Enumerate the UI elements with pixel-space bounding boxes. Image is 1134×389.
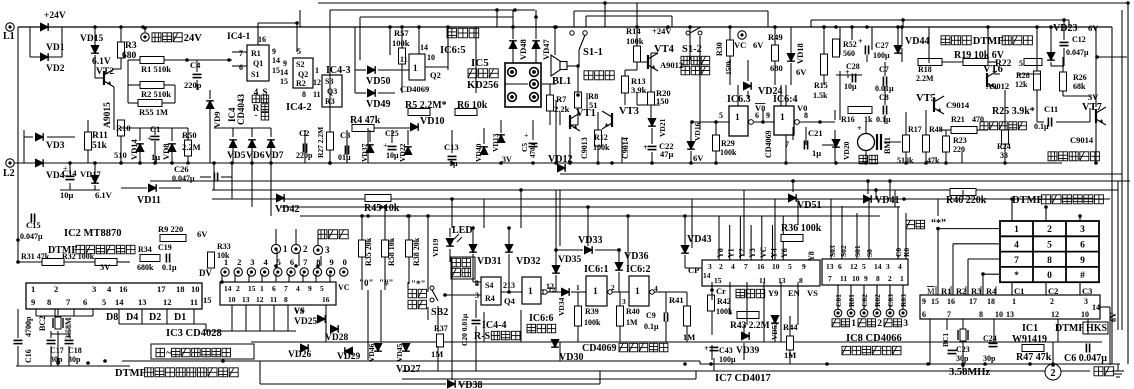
svg-text:9: 9 <box>766 111 770 120</box>
svg-text:R36 100k: R36 100k <box>781 223 822 234</box>
svg-text:IC2 MT8870: IC2 MT8870 <box>64 228 121 239</box>
svg-text:16: 16 <box>947 297 955 306</box>
svg-text:L2: L2 <box>3 168 15 179</box>
svg-text:C16: C16 <box>24 349 33 363</box>
svg-text:R26: R26 <box>1073 73 1087 82</box>
svg-text:0: 0 <box>1047 271 1052 281</box>
svg-text:VS: VS <box>294 305 305 315</box>
svg-text:2: 2 <box>1050 297 1054 306</box>
svg-text:R14: R14 <box>626 26 641 36</box>
svg-text:100k: 100k <box>593 143 610 152</box>
svg-text:V0: V0 <box>755 103 765 113</box>
svg-text:6: 6 <box>272 284 276 293</box>
svg-text:5: 5 <box>320 284 324 293</box>
svg-text:1: 1 <box>224 257 228 267</box>
svg-text:VC: VC <box>759 246 768 258</box>
svg-text:+: + <box>704 344 709 353</box>
svg-text:2: 2 <box>1047 225 1052 235</box>
svg-text:1: 1 <box>900 274 904 283</box>
svg-text:5: 5 <box>102 297 106 307</box>
svg-text:0.1μ: 0.1μ <box>644 322 659 331</box>
svg-text:30p: 30p <box>68 355 81 364</box>
svg-text:VD23: VD23 <box>1053 23 1077 34</box>
svg-text:+: + <box>63 164 68 173</box>
svg-text:1: 1 <box>1014 225 1019 235</box>
svg-text:15: 15 <box>272 66 280 75</box>
svg-text:S4: S4 <box>485 281 493 290</box>
svg-text:1M: 1M <box>431 349 443 359</box>
svg-text:VD3: VD3 <box>46 141 65 151</box>
svg-text:R16: R16 <box>841 115 855 124</box>
svg-text:"*": "*" <box>411 279 426 289</box>
svg-text:DTMF: DTMF <box>115 368 146 379</box>
svg-text:R42: R42 <box>717 297 731 306</box>
svg-text:IC4-4: IC4-4 <box>482 320 506 331</box>
svg-text:4: 4 <box>263 257 268 267</box>
svg-text:#: # <box>1080 271 1085 281</box>
svg-text:DV: DV <box>199 268 212 278</box>
svg-text:VC: VC <box>734 40 746 50</box>
svg-text:3: 3 <box>325 245 330 255</box>
svg-text:15: 15 <box>280 77 288 86</box>
svg-text:C9014: C9014 <box>946 100 970 110</box>
svg-text:IC3 CD4028: IC3 CD4028 <box>166 328 222 339</box>
svg-text:LED: LED <box>452 225 473 236</box>
svg-text:VD19: VD19 <box>431 238 440 257</box>
svg-text:15: 15 <box>203 295 212 305</box>
svg-text:1: 1 <box>283 244 288 254</box>
svg-text:V0: V0 <box>797 103 807 113</box>
svg-text:5: 5 <box>1047 241 1052 251</box>
svg-text:DTMF: DTMF <box>1012 195 1043 206</box>
svg-text:9: 9 <box>31 297 35 307</box>
svg-text:VD30: VD30 <box>559 352 583 363</box>
svg-text:3: 3 <box>886 262 890 271</box>
svg-text:3: 3 <box>708 262 712 271</box>
svg-text:150k: 150k <box>724 59 733 75</box>
svg-text:100k: 100k <box>584 318 601 327</box>
svg-text:6: 6 <box>838 262 842 271</box>
svg-text:Y1: Y1 <box>727 248 736 258</box>
svg-text:3: 3 <box>92 284 96 294</box>
svg-text:+: + <box>643 143 648 152</box>
svg-text:1μ: 1μ <box>151 152 160 162</box>
svg-text:R31 47k: R31 47k <box>21 252 50 261</box>
svg-text:IC6:2: IC6:2 <box>626 264 650 275</box>
svg-text:12: 12 <box>850 262 858 271</box>
svg-text:R29: R29 <box>721 139 735 148</box>
svg-text:VD17: VD17 <box>80 169 102 179</box>
svg-text:R2: R2 <box>296 79 306 88</box>
svg-text:2: 2 <box>888 274 892 283</box>
svg-text:VT5: VT5 <box>916 93 936 104</box>
svg-text:+: + <box>147 134 152 143</box>
svg-text:R46 220k: R46 220k <box>946 195 987 206</box>
svg-text:C5: C5 <box>520 143 529 152</box>
svg-text:IC1: IC1 <box>1022 323 1038 334</box>
svg-text:CD4069: CD4069 <box>400 84 429 94</box>
svg-text:6.1V: 6.1V <box>95 190 113 200</box>
svg-text:220p: 220p <box>184 80 202 90</box>
svg-text:R1: R1 <box>251 49 261 58</box>
svg-text:47k: 47k <box>927 156 940 165</box>
svg-text:S03: S03 <box>828 245 837 257</box>
svg-text:VD26: VD26 <box>288 350 311 360</box>
svg-text:11: 11 <box>270 295 277 304</box>
svg-text:9: 9 <box>329 257 333 267</box>
svg-text:C13: C13 <box>444 142 459 152</box>
svg-text:68k: 68k <box>1073 82 1086 91</box>
svg-text:R55 1M: R55 1M <box>139 107 168 117</box>
svg-text:2: 2 <box>54 284 58 294</box>
svg-text:R41: R41 <box>669 295 684 305</box>
svg-text:100μ: 100μ <box>873 51 890 60</box>
svg-text:9: 9 <box>272 47 276 56</box>
svg-text:1M: 1M <box>683 332 695 342</box>
svg-text:30p: 30p <box>983 354 996 363</box>
svg-text:0: 0 <box>343 257 347 267</box>
svg-text:C9014: C9014 <box>1070 135 1094 145</box>
svg-text:C4: C4 <box>190 60 201 70</box>
svg-text:Y6: Y6 <box>780 248 789 258</box>
svg-text:0.1μ: 0.1μ <box>876 115 891 124</box>
svg-text:5: 5 <box>788 262 792 271</box>
svg-text:VD2: VD2 <box>46 64 65 74</box>
svg-text:+: + <box>857 124 862 133</box>
svg-text:3: 3 <box>250 257 254 267</box>
svg-text:8: 8 <box>302 90 306 99</box>
svg-text:S2: S2 <box>296 60 304 69</box>
svg-text:5: 5 <box>719 111 723 120</box>
svg-text:R44: R44 <box>783 322 798 332</box>
svg-text:S1-2: S1-2 <box>682 44 702 55</box>
svg-text:470μ: 470μ <box>529 144 537 159</box>
svg-text:Q3: Q3 <box>327 87 337 96</box>
svg-text:6V: 6V <box>796 67 807 77</box>
svg-text:R38 20k: R38 20k <box>412 237 421 266</box>
svg-text:VD49: VD49 <box>366 99 390 110</box>
svg-text:14: 14 <box>280 68 288 77</box>
svg-text:VD10: VD10 <box>420 116 444 127</box>
svg-text:VD41: VD41 <box>875 195 899 206</box>
svg-text:VD11: VD11 <box>137 195 161 206</box>
svg-text:VD43: VD43 <box>687 234 711 245</box>
svg-text:IC6:5: IC6:5 <box>440 45 466 56</box>
svg-text:2.2M: 2.2M <box>182 142 201 152</box>
svg-text:10: 10 <box>427 53 435 62</box>
svg-text:7: 7 <box>828 274 832 283</box>
svg-text:1: 1 <box>851 319 856 329</box>
svg-text:D4: D4 <box>126 312 138 323</box>
svg-text:15: 15 <box>714 276 722 285</box>
svg-text:C6 0.047μ: C6 0.047μ <box>1064 353 1107 364</box>
svg-text:470: 470 <box>972 115 984 124</box>
svg-text:Y3: Y3 <box>748 248 757 258</box>
svg-text:R15: R15 <box>814 81 828 90</box>
svg-text:VC: VC <box>338 283 350 292</box>
svg-text:IC6:6: IC6:6 <box>529 313 553 324</box>
svg-text:10μ: 10μ <box>844 82 857 91</box>
svg-text:0.1μ: 0.1μ <box>1034 122 1049 131</box>
svg-text:R23: R23 <box>953 136 967 145</box>
svg-text:"0": "0" <box>359 278 374 288</box>
svg-text:10: 10 <box>228 295 236 304</box>
svg-text:6V: 6V <box>753 40 764 50</box>
svg-text:12: 12 <box>1051 310 1059 319</box>
svg-text:13: 13 <box>242 295 250 304</box>
svg-text:C12: C12 <box>1072 35 1086 44</box>
svg-text:R22: R22 <box>995 59 1012 69</box>
svg-text:R3: R3 <box>125 41 137 51</box>
svg-text:VD33: VD33 <box>578 235 602 246</box>
svg-text:+: + <box>858 37 863 46</box>
svg-text:VD16: VD16 <box>693 122 702 141</box>
svg-text:7: 7 <box>744 262 748 271</box>
svg-text:C3: C3 <box>340 130 350 140</box>
svg-text:16: 16 <box>757 262 765 271</box>
svg-text:30p: 30p <box>956 354 969 363</box>
svg-text:14: 14 <box>115 297 124 307</box>
svg-text:VD34: VD34 <box>557 297 566 316</box>
svg-text:DTMF: DTMF <box>1055 323 1084 334</box>
svg-text:C21: C21 <box>808 128 823 138</box>
svg-text:VD29: VD29 <box>337 352 360 362</box>
svg-text:R52: R52 <box>843 40 857 49</box>
svg-text:R50: R50 <box>182 130 197 140</box>
svg-text:D1: D1 <box>174 312 186 323</box>
svg-text:100k: 100k <box>626 36 644 46</box>
svg-text:1: 1 <box>780 113 785 123</box>
svg-text:100k: 100k <box>392 38 410 48</box>
svg-text:C23: C23 <box>956 345 970 354</box>
svg-text:R40: R40 <box>626 307 640 316</box>
svg-text:8: 8 <box>876 274 880 283</box>
svg-text:IC6:1: IC6:1 <box>584 264 608 275</box>
svg-text:1: 1 <box>576 283 580 292</box>
svg-text:7: 7 <box>284 284 288 293</box>
svg-text:+: + <box>524 131 529 140</box>
svg-text:1k: 1k <box>864 115 873 124</box>
svg-text:VD35: VD35 <box>558 255 581 265</box>
svg-text:8: 8 <box>799 276 803 285</box>
svg-text:11: 11 <box>840 274 847 283</box>
svg-text:Y0: Y0 <box>716 248 725 258</box>
svg-text:6: 6 <box>1080 241 1085 251</box>
svg-text:8: 8 <box>47 297 51 307</box>
svg-text:C17: C17 <box>50 346 64 355</box>
svg-text:6: 6 <box>83 297 87 307</box>
svg-text:VD22: VD22 <box>398 143 407 162</box>
svg-text:14: 14 <box>224 284 232 293</box>
svg-text:VD44: VD44 <box>905 36 929 47</box>
svg-text:HKS: HKS <box>1086 323 1108 334</box>
svg-text:220: 220 <box>953 145 965 154</box>
svg-text:18: 18 <box>176 284 185 294</box>
svg-text:11: 11 <box>313 90 321 99</box>
svg-text:-: - <box>255 110 258 120</box>
svg-text:2: 2 <box>236 284 240 293</box>
svg-text:16: 16 <box>322 295 330 304</box>
svg-text:VD14: VD14 <box>129 138 139 160</box>
svg-text:CP: CP <box>688 265 699 275</box>
svg-text:R17: R17 <box>908 125 922 134</box>
svg-text:1μ: 1μ <box>812 148 821 158</box>
svg-text:4: 4 <box>731 262 735 271</box>
svg-text:C7: C7 <box>879 65 889 74</box>
svg-text:R2 510k: R2 510k <box>141 89 171 99</box>
svg-text:BL1: BL1 <box>552 76 571 87</box>
svg-text:C19: C19 <box>158 243 172 252</box>
svg-text:IC6.3: IC6.3 <box>727 94 751 105</box>
svg-text:16: 16 <box>258 35 266 44</box>
svg-text:CD4069: CD4069 <box>764 130 773 158</box>
svg-text:12: 12 <box>256 295 264 304</box>
svg-text:C18: C18 <box>68 346 82 355</box>
svg-text:100μ: 100μ <box>719 355 736 364</box>
svg-text:3V: 3V <box>502 155 512 164</box>
svg-text:4: 4 <box>1014 241 1019 251</box>
svg-text:R9 220: R9 220 <box>158 224 183 234</box>
svg-text:12: 12 <box>163 297 172 307</box>
svg-text:VD18: VD18 <box>795 43 805 64</box>
svg-text:8: 8 <box>284 295 288 304</box>
svg-text:13: 13 <box>138 297 147 307</box>
svg-text:4: 4 <box>898 262 902 271</box>
svg-text:5: 5 <box>862 262 866 271</box>
svg-text:4: 4 <box>296 284 300 293</box>
svg-text:6: 6 <box>239 63 243 72</box>
svg-text:2: 2 <box>719 262 723 271</box>
svg-text:R21: R21 <box>951 115 965 124</box>
svg-text:C9013: C9013 <box>580 137 589 159</box>
svg-text:13: 13 <box>1006 310 1014 319</box>
svg-text:3V: 3V <box>100 262 111 272</box>
svg-text:3: 3 <box>622 297 626 306</box>
svg-text:L1: L1 <box>3 31 15 42</box>
svg-text:0.047μ: 0.047μ <box>20 232 43 241</box>
svg-text:C43: C43 <box>719 346 733 355</box>
svg-text:11: 11 <box>400 55 408 64</box>
svg-text:VD5: VD5 <box>227 151 246 161</box>
svg-text:Q2: Q2 <box>430 70 441 80</box>
svg-text:Q2: Q2 <box>298 70 308 79</box>
svg-text:VD31: VD31 <box>477 256 501 267</box>
svg-text:VD25: VD25 <box>294 317 317 327</box>
svg-text:1: 1 <box>635 287 640 297</box>
svg-text:R12: R12 <box>594 133 608 142</box>
svg-text:9: 9 <box>308 284 312 293</box>
svg-text:BC2: BC2 <box>38 316 47 331</box>
svg-text:R32 100k: R32 100k <box>62 252 95 261</box>
svg-text:Y8: Y8 <box>807 251 816 261</box>
svg-text:10: 10 <box>995 310 1003 319</box>
svg-text:14: 14 <box>420 43 428 52</box>
svg-text:Q1: Q1 <box>253 59 263 68</box>
svg-text:IC4-1: IC4-1 <box>227 32 250 42</box>
svg-text:680: 680 <box>770 63 783 73</box>
svg-text:VS: VS <box>807 288 818 298</box>
svg-text:R37: R37 <box>434 324 448 333</box>
svg-text:1: 1 <box>528 287 533 297</box>
svg-text:C8: C8 <box>879 93 889 102</box>
svg-text:14: 14 <box>272 56 280 65</box>
svg-text:IC6:4: IC6:4 <box>773 94 797 105</box>
svg-text:R11: R11 <box>92 131 108 141</box>
svg-text:2: 2 <box>1051 368 1056 379</box>
svg-text:VD48: VD48 <box>518 39 528 60</box>
svg-text:IC4-2: IC4-2 <box>286 102 312 113</box>
svg-text:+24V: +24V <box>44 11 66 21</box>
svg-text:560: 560 <box>843 49 855 58</box>
svg-text:R58 10k: R58 10k <box>387 237 396 266</box>
svg-text:0.047μ: 0.047μ <box>172 174 195 183</box>
svg-text:51k: 51k <box>92 141 108 151</box>
svg-text:15: 15 <box>931 297 939 306</box>
svg-text:9: 9 <box>864 274 868 283</box>
svg-text:0.1μ: 0.1μ <box>162 263 177 272</box>
svg-text:A9015: A9015 <box>103 102 113 128</box>
svg-text:3.58MHz: 3.58MHz <box>949 367 990 378</box>
svg-text:W91419: W91419 <box>1012 334 1047 345</box>
svg-text:VD42: VD42 <box>275 204 299 215</box>
svg-text:S1: S1 <box>251 70 259 79</box>
svg-text:680k: 680k <box>137 263 154 272</box>
svg-text:C2: C2 <box>299 128 309 138</box>
svg-text:7: 7 <box>947 310 951 319</box>
svg-text:5: 5 <box>297 47 301 56</box>
svg-text:14: 14 <box>1092 303 1100 312</box>
svg-text:VD21: VD21 <box>658 118 667 137</box>
svg-text:3: 3 <box>1080 225 1085 235</box>
svg-text:9: 9 <box>922 297 926 306</box>
svg-text:3V: 3V <box>1088 92 1099 102</box>
svg-text:6: 6 <box>290 257 294 267</box>
svg-text:R7: R7 <box>556 94 567 104</box>
svg-text:3: 3 <box>1084 297 1088 306</box>
svg-text:R34: R34 <box>138 245 152 254</box>
svg-text:C24: C24 <box>983 334 997 343</box>
svg-text:VD40: VD40 <box>474 143 483 162</box>
svg-text:VD51: VD51 <box>797 200 821 211</box>
svg-text:6V: 6V <box>1088 23 1099 33</box>
svg-text:C15: C15 <box>26 220 41 230</box>
svg-text:D2: D2 <box>149 312 161 323</box>
svg-text:KD256: KD256 <box>467 80 499 91</box>
svg-text:510: 510 <box>114 150 127 160</box>
svg-text:S1-1: S1-1 <box>583 47 603 58</box>
svg-text:11: 11 <box>759 276 766 285</box>
svg-text:VD32: VD32 <box>516 256 540 267</box>
svg-text:7: 7 <box>303 257 308 267</box>
svg-text:8: 8 <box>1047 256 1052 266</box>
svg-text:VT3: VT3 <box>619 106 639 117</box>
svg-text:7: 7 <box>239 49 243 58</box>
svg-text:1: 1 <box>413 63 418 73</box>
svg-text:R30: R30 <box>715 42 724 56</box>
svg-text:A9012: A9012 <box>660 60 683 70</box>
svg-text:R47 47k: R47 47k <box>1016 352 1052 363</box>
svg-text:*: * <box>1014 271 1019 281</box>
svg-text:1: 1 <box>735 113 740 123</box>
svg-text:0.047μ: 0.047μ <box>1066 48 1089 57</box>
svg-text:100k: 100k <box>720 148 737 157</box>
svg-text:Q4: Q4 <box>504 296 516 306</box>
svg-text:R35 20k: R35 20k <box>364 237 373 266</box>
svg-text:R4: R4 <box>485 294 495 303</box>
svg-text:VD20: VD20 <box>842 141 851 160</box>
svg-text:VD39: VD39 <box>736 346 759 356</box>
svg-text:1: 1 <box>593 287 598 297</box>
